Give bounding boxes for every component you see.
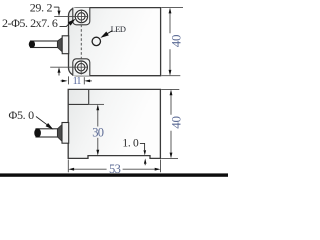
dim 40 top view arrows (169, 8, 172, 14)
LED indicator hole (92, 37, 100, 45)
dim 53 arrows (68, 168, 74, 171)
mounting boss top (73, 8, 90, 25)
dim 1.0 arrows (144, 150, 147, 155)
svg-text:40: 40 (168, 35, 183, 47)
black separator bar (0, 173, 228, 176)
dim 30 line (97, 110, 99, 127)
bottom view sensor body outline (68, 89, 160, 158)
hole 1 center lines (54, 15, 87, 17)
svg-text:2-Φ5. 2x7. 6: 2-Φ5. 2x7. 6 (2, 16, 58, 30)
dim 11 extension ticks (68, 76, 70, 84)
dim 29.2 arrow down (58, 11, 61, 17)
cable gland collar top view (62, 36, 68, 54)
notch reference extension (89, 103, 104, 105)
dim 30 arrows (96, 104, 99, 110)
svg-text:29. 2: 29. 2 (30, 0, 53, 14)
cable gland cone bottom view (58, 125, 63, 142)
top view sensor body outline (69, 8, 161, 76)
dim 29.2 arrow up (58, 67, 61, 73)
mounting boss bottom (73, 59, 90, 76)
svg-text:LED: LED (111, 25, 126, 34)
dim 11 arrows (61, 80, 63, 82)
svg-text:1. 0: 1. 0 (122, 138, 139, 150)
dim 40 bottom view extension lines (161, 88, 179, 90)
hole 2 center lines (50, 66, 87, 68)
mounting hole 2 outer (75, 61, 87, 73)
dim 53 line (74, 168, 107, 170)
holes leader line (60, 22, 71, 26)
svg-text:30: 30 (92, 125, 104, 139)
dim 53 extension lines (67, 160, 69, 173)
dim 29.2 leader (54, 6, 59, 8)
holes leader arrow (68, 19, 76, 26)
dashed axis between holes (80, 25, 82, 61)
cable gland cone top view (58, 38, 63, 52)
LED leader (104, 31, 113, 36)
cable end cap bottom view (34, 129, 41, 138)
mounting hole 1 inner (78, 13, 85, 20)
cable gland collar bottom view (62, 123, 69, 144)
phi5.0 leader (36, 117, 49, 126)
cable top view (31, 41, 58, 48)
cable bottom view (36, 129, 58, 137)
mounting hole 1 outer (75, 10, 87, 22)
svg-text:11: 11 (73, 76, 82, 87)
cable end cap top view (29, 41, 35, 48)
dim 40 bottom view line (170, 94, 172, 114)
corner notch lines bottom view (88, 89, 90, 104)
svg-text:40: 40 (168, 116, 183, 128)
svg-text:Φ5. 0: Φ5. 0 (9, 108, 35, 122)
dim 40 top view extension lines (161, 7, 183, 9)
mounting hole 2 inner (78, 63, 85, 70)
dim 40 bottom view arrows (170, 89, 173, 95)
dim 1.0 leader elbow (140, 143, 145, 150)
dim 40 top view line (169, 13, 171, 34)
